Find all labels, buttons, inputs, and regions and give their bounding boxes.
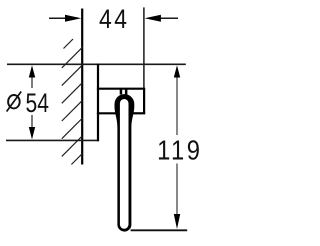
dim Ø54 bottom arrowhead (29, 127, 35, 140)
peg right wall (125, 88, 128, 95)
rosette right edge (97, 64, 99, 142)
dim 44 left arrowhead (65, 15, 81, 22)
dim 119 line upper segment (176, 76, 178, 136)
peg left wall (tube stem through arm) (120, 88, 123, 95)
dim Ø54 line lower segment (31, 115, 33, 128)
dim 119 line lower segment (176, 164, 178, 216)
wall hatching (62, 39, 83, 165)
dim 119 top arrowhead (174, 65, 180, 77)
dim Ø54 line upper segment (31, 74, 33, 88)
wall face line (81, 9, 83, 165)
svg-text:44: 44 (99, 4, 129, 34)
label Ø (diameter symbol, drawn) (7, 92, 22, 112)
arm / hub rectangle (97, 89, 145, 114)
top extension line (Ø54 top / 119 top) (7, 63, 186, 65)
ring / loop (side view silhouette) (115, 94, 135, 232)
svg-text:54: 54 (26, 88, 49, 118)
dim 44 right arrowhead (145, 15, 161, 22)
dim 44 right arrow tail (159, 17, 178, 19)
svg-text:119: 119 (157, 136, 202, 166)
dim Ø54 top arrowhead (29, 65, 35, 77)
bottom extension line (Ø54 bottom / rosette bottom) (6, 139, 99, 141)
dim 44 left arrow tail (49, 17, 67, 19)
bottom extension line (119 bottom / baseline) (131, 229, 188, 231)
dim 119 bottom arrowhead (174, 214, 180, 229)
44 dim right extension line (143, 7, 145, 88)
